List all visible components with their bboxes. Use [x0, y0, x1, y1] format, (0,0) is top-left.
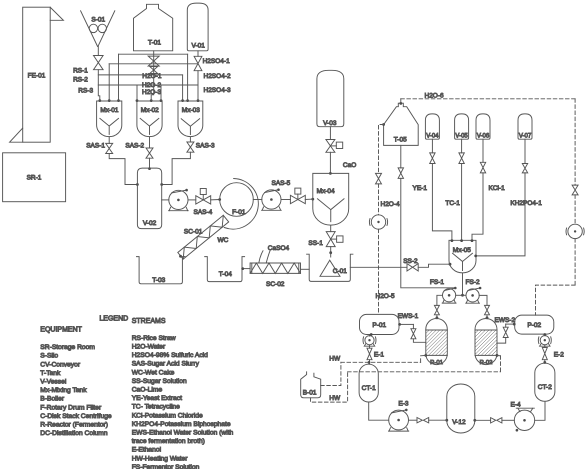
vessel V-03	[317, 70, 344, 126]
valve under V-06	[480, 162, 485, 173]
vessel P-02	[515, 315, 554, 334]
svg-text:LEGEND: LEGEND	[99, 316, 128, 323]
valve SAS-2	[149, 137, 151, 148]
wire V-07 to Mx-05	[476, 173, 525, 256]
wire H2O-6 drop 2	[574, 195, 576, 224]
wire drop to Mx-01 inlet2	[108, 64, 110, 101]
svg-text:B-Boiler: B-Boiler	[40, 396, 65, 403]
tank T-03	[137, 257, 186, 284]
svg-text:CaSO4: CaSO4	[268, 245, 290, 252]
wire V-12 to check valve	[473, 419, 476, 422]
wire drop to Mx-01 inlet3	[118, 54, 120, 100]
svg-text:H2O-6: H2O-6	[425, 92, 445, 99]
svg-text:RS-2: RS-2	[73, 76, 88, 83]
wire EWS-1 to R-01	[413, 339, 425, 343]
svg-text:CT-1: CT-1	[362, 385, 376, 392]
svg-text:WC-Wet Cake: WC-Wet Cake	[132, 369, 175, 376]
silo S-01	[81, 11, 115, 47]
node Mx-03 inlets	[181, 99, 184, 102]
svg-text:V-Vessel: V-Vessel	[40, 379, 67, 386]
svg-text:HW: HW	[329, 356, 341, 363]
wire H2O-4 mid	[378, 184, 380, 215]
wire P-01 bottom	[369, 335, 371, 337]
mixing tank Mx-03	[178, 101, 203, 137]
svg-text:R-01: R-01	[430, 360, 443, 366]
boiler B-01	[301, 372, 321, 398]
svg-text:EWS-2: EWS-2	[495, 317, 516, 324]
svg-text:H2SO4-1: H2SO4-1	[203, 58, 230, 65]
valve pair under T-01	[148, 56, 159, 66]
svg-text:C-Disk Stack Centrifuge: C-Disk Stack Centrifuge	[40, 413, 112, 420]
wire SAS-4 to F-01	[211, 199, 220, 201]
wire V-04 outlet	[431, 139, 433, 153]
valve under E-1	[367, 348, 372, 360]
svg-text:SAS-5: SAS-5	[272, 180, 291, 187]
svg-text:HW-Heating Water: HW-Heating Water	[132, 455, 189, 462]
svg-text:CT-2: CT-2	[538, 384, 552, 391]
valve SS-1 with actuator	[326, 232, 335, 247]
wire SAS-1 to V-02	[109, 154, 137, 185]
svg-text:C-01: C-01	[333, 268, 347, 275]
svg-text:RS-1: RS-1	[73, 68, 88, 75]
wire V-05 to Mx-05	[461, 164, 463, 241]
wire T-05 outlet	[400, 145, 402, 168]
svg-text:SR-1: SR-1	[27, 175, 42, 182]
wire header H2O top	[119, 53, 188, 55]
svg-text:TC- Tetracycline: TC- Tetracycline	[132, 404, 180, 411]
wire V-07 outlet	[524, 139, 526, 163]
svg-text:STREAMS: STREAMS	[132, 318, 166, 325]
svg-text:E-3: E-3	[398, 400, 409, 407]
svg-text:SS-2: SS-2	[403, 258, 418, 265]
svg-text:E-Ethanol: E-Ethanol	[132, 447, 162, 454]
wire RS-1 drop	[98, 70, 100, 101]
svg-text:V-04: V-04	[426, 133, 439, 139]
svg-text:E-4: E-4	[511, 402, 522, 409]
vessel V-01	[187, 3, 208, 51]
svg-text:SAS-Sugar Acid Slurry: SAS-Sugar Acid Slurry	[132, 361, 200, 368]
svg-text:SS-1: SS-1	[308, 240, 323, 247]
wire T-05 to FS-1	[401, 178, 456, 287]
control valve SAS-5	[290, 195, 305, 203]
svg-text:FE-01: FE-01	[28, 73, 46, 80]
tank T-05	[384, 103, 419, 145]
svg-text:P-01: P-01	[372, 322, 386, 329]
svg-text:V-12: V-12	[452, 419, 466, 426]
svg-text:EWS-Ethanol Water Solution (wi: EWS-Ethanol Water Solution (with	[132, 430, 234, 437]
mixing tank Mx-01	[97, 101, 122, 137]
column CT-2	[535, 363, 555, 401]
valve under S-01	[94, 56, 104, 70]
valve under V-01	[197, 51, 199, 57]
wire valve to Mx-04	[329, 152, 331, 173]
wire E-1 to CT-1	[369, 360, 371, 365]
svg-text:KH2PO4-Potassium Biphosphate: KH2PO4-Potassium Biphosphate	[132, 421, 231, 428]
svg-text:YE-Yeast Extract: YE-Yeast Extract	[132, 395, 182, 402]
pump E-3	[389, 410, 409, 430]
svg-text:H2O-5: H2O-5	[376, 293, 396, 300]
svg-text:H2SO4-3: H2SO4-3	[204, 87, 231, 94]
wire H2O-6 to P-02	[574, 239, 576, 286]
svg-text:T-01: T-01	[148, 40, 161, 47]
svg-text:RS-Rice Straw: RS-Rice Straw	[132, 335, 176, 342]
wire Mx-04 outlet	[330, 226, 332, 232]
wire F-01 to pump	[253, 199, 261, 201]
wire H2O-6 drop	[574, 99, 576, 185]
wire drop to Mx-03 inlet2	[187, 54, 189, 100]
wire FS-1 discharge	[437, 295, 443, 305]
reactor R-02	[475, 319, 497, 365]
svg-text:H2O-4: H2O-4	[381, 201, 401, 208]
svg-text:T-05: T-05	[394, 137, 407, 144]
svg-text:FS-1: FS-1	[430, 279, 444, 286]
valve on H2O-4	[376, 173, 382, 184]
wire R-02 jacket connection	[496, 354, 499, 357]
wire H2O-4 to P-01	[378, 229, 380, 314]
mixing tank Mx-05	[449, 240, 476, 273]
svg-text:EQUIPMENT: EQUIPMENT	[40, 327, 82, 334]
svg-text:V-07: V-07	[519, 133, 532, 139]
valve SAS-3	[189, 137, 191, 142]
node V-02 left	[136, 183, 139, 186]
wire drop to Mx-02 inlet3	[160, 85, 162, 100]
svg-text:B-01: B-01	[303, 390, 317, 397]
wire SAS-5 to Mx-04	[305, 198, 313, 200]
wire H2O-4 branch	[379, 125, 384, 174]
wire Mx-05 outlet	[462, 273, 464, 295]
valve SAS-1	[108, 137, 110, 143]
pump on H2O-4	[371, 215, 385, 229]
wire header H2SO4-1	[109, 63, 198, 65]
svg-text:TC-1: TC-1	[445, 200, 460, 207]
mixing tank Mx-02	[137, 101, 162, 137]
wire into R-01	[436, 315, 438, 319]
wire SS-1 to C-01	[330, 247, 332, 253]
vessel P-01	[360, 314, 400, 334]
svg-text:V-02: V-02	[143, 220, 157, 227]
svg-text:FS-Fermentor Solution: FS-Fermentor Solution	[132, 464, 200, 469]
wire E-2 to valve	[544, 345, 546, 348]
svg-text:S-01: S-01	[91, 16, 105, 23]
svg-text:H2O-3: H2O-3	[142, 89, 162, 96]
svg-text:S-Silo: S-Silo	[40, 353, 58, 360]
screw conveyor SC-02	[250, 263, 300, 273]
pump E-1	[365, 336, 374, 345]
wire E-3 to check valve	[409, 419, 418, 421]
pump E-4	[514, 410, 534, 430]
valve EWS-2	[503, 327, 508, 337]
wire pump to SAS-4 valve	[188, 199, 196, 201]
svg-text:SS-Sugar Solution: SS-Sugar Solution	[132, 378, 187, 385]
screw conveyor SC-01	[178, 215, 229, 259]
wire E-1 to valve	[369, 345, 371, 348]
svg-text:SC-01: SC-01	[184, 229, 203, 236]
svg-text:H2SO4-98% Sulfuric Acid: H2SO4-98% Sulfuric Acid	[132, 352, 208, 359]
vessel V-12	[447, 384, 475, 433]
svg-text:Mx-04: Mx-04	[317, 188, 335, 195]
check valve after E-3	[417, 418, 429, 423]
check valve to R-01	[434, 305, 439, 314]
svg-text:Mx-05: Mx-05	[453, 247, 471, 254]
wire CT-1 to E-3	[369, 402, 389, 420]
wire E-4 to CT-2	[535, 401, 545, 420]
svg-text:T-Tank: T-Tank	[40, 370, 61, 377]
wire V-02 to pump	[162, 199, 169, 201]
svg-text:H2O-Water: H2O-Water	[132, 344, 166, 351]
svg-text:CaO-Lime: CaO-Lime	[132, 387, 163, 394]
pump on H2O-6	[568, 224, 582, 238]
wire T-01 down	[151, 51, 154, 101]
storage room SR-1	[3, 153, 66, 202]
conveyor FE-01	[23, 7, 51, 142]
node Mx-02 inlets	[136, 99, 139, 102]
wire to FS pumps	[456, 294, 466, 296]
valve under V-07	[522, 164, 527, 173]
svg-text:YE-1: YE-1	[413, 185, 428, 192]
svg-text:HW: HW	[329, 395, 341, 402]
svg-text:KCl-Potassium Chloride: KCl-Potassium Chloride	[132, 412, 203, 419]
wire S-01 outlet	[97, 47, 99, 56]
svg-text:CV-Conveyor: CV-Conveyor	[40, 361, 81, 368]
check valve before E-4	[491, 418, 502, 423]
vessel V-07	[518, 114, 532, 139]
wire V-01 down	[197, 71, 199, 101]
pump after F-01	[262, 190, 281, 209]
svg-text:V-01: V-01	[192, 43, 206, 50]
valve under T-05	[398, 168, 403, 179]
check valve to R-02	[485, 305, 490, 314]
svg-text:R-Reactor (Fermentor): R-Reactor (Fermentor)	[40, 422, 108, 429]
svg-text:KCl-1: KCl-1	[489, 185, 506, 192]
centrifuge C-01 cone	[320, 260, 340, 276]
wire E-2 to CT-2	[544, 360, 546, 364]
node Mx-05 inlets	[451, 239, 454, 242]
svg-text:H2O-1: H2O-1	[142, 73, 162, 80]
centrifuge C-01 tank	[307, 254, 353, 281]
wire H2O-6 header	[401, 98, 575, 100]
svg-text:SR-Storage Room: SR-Storage Room	[40, 344, 95, 351]
wire HW from B-01	[321, 362, 341, 385]
svg-text:T-04: T-04	[219, 271, 232, 278]
wire drop to Mx-02 inlet1	[136, 85, 138, 100]
svg-text:SAS-1: SAS-1	[86, 143, 105, 150]
wire R-01 jacket connection	[424, 354, 427, 357]
svg-text:EWS-1: EWS-1	[398, 313, 419, 320]
svg-text:Mx-Mixing Tank: Mx-Mixing Tank	[40, 387, 87, 394]
svg-text:Mx-01: Mx-01	[100, 107, 118, 114]
pump FS-2	[466, 289, 479, 302]
svg-text:H2SO4-2: H2SO4-2	[204, 73, 231, 80]
svg-text:Mx-02: Mx-02	[141, 107, 159, 114]
node T-05 water takeoff	[382, 123, 385, 126]
wire HW header top	[341, 361, 421, 363]
control valve SAS-4	[196, 196, 211, 204]
pump E-2	[540, 336, 549, 345]
rotary drum filter F-01	[220, 183, 254, 217]
svg-text:DC-Distillation Column: DC-Distillation Column	[40, 430, 108, 437]
vessel V-05	[455, 114, 469, 139]
svg-text:V-03: V-03	[323, 120, 337, 127]
wire T-04 to SC-02	[242, 268, 250, 270]
svg-text:WC: WC	[218, 237, 229, 244]
valve on H2O-6	[572, 185, 578, 195]
wire CaSO4 feed lines	[259, 251, 270, 263]
svg-text:P-02: P-02	[527, 322, 541, 329]
wire C-01 to SS-2 valve	[350, 266, 407, 268]
node V-02 right	[160, 183, 163, 186]
valve under E-2	[542, 348, 547, 360]
wire V-06 to Mx-05	[472, 173, 483, 240]
wire HW header lower	[348, 371, 501, 373]
vessel V-04	[425, 114, 439, 139]
svg-text:KH2PO4-1: KH2PO4-1	[510, 200, 542, 207]
wire V-06 outlet	[482, 139, 484, 162]
tank T-01	[134, 4, 173, 51]
wire V-05 outlet	[461, 139, 463, 153]
valve EWS-1	[411, 329, 416, 339]
wire pump to SAS-5 valve	[281, 199, 290, 201]
wire FS-2 discharge	[479, 295, 487, 305]
svg-text:V-06: V-06	[477, 133, 490, 139]
wire P-02 bottom	[544, 334, 546, 336]
svg-text:FS-2: FS-2	[466, 279, 480, 286]
vessel V-02	[137, 168, 161, 229]
svg-text:SC-02: SC-02	[266, 281, 285, 288]
svg-text:RS-3: RS-3	[78, 88, 93, 95]
valve under V-05	[459, 153, 464, 164]
svg-text:F-01: F-01	[232, 209, 246, 216]
svg-text:T-03: T-03	[152, 277, 165, 284]
wire SAS-2 to V-02	[149, 158, 151, 168]
svg-text:E-1: E-1	[374, 351, 385, 358]
svg-text:SAS-2: SAS-2	[125, 143, 144, 150]
wire EWS-2 to R-02	[497, 338, 506, 344]
vessel V-06	[476, 114, 490, 139]
svg-text:V-05: V-05	[455, 133, 468, 139]
wire drop to Mx-03 inlet1	[182, 75, 184, 100]
valve SS-2	[407, 264, 418, 271]
wire header lower	[98, 84, 198, 86]
column CT-1	[359, 364, 378, 402]
svg-text:Mx-03: Mx-03	[182, 107, 200, 114]
pump FS-1	[443, 289, 456, 302]
node Mx-01 inlets	[98, 99, 101, 102]
wire P-01 to EWS-1 valve	[399, 323, 413, 325]
tank T-04	[205, 257, 245, 282]
svg-text:E-2: E-2	[554, 351, 565, 358]
wire to V-12	[429, 419, 447, 421]
wire header RS to Mx-03	[98, 74, 182, 76]
svg-text:SAS-3: SAS-3	[196, 143, 215, 150]
pump after V-02	[169, 190, 188, 209]
valve under V-04	[430, 153, 435, 164]
svg-text:H2O-2: H2O-2	[142, 82, 162, 89]
wire SC-02 to C-01	[301, 268, 310, 270]
svg-text:SAS-4: SAS-4	[194, 209, 213, 216]
wire SS-2 to Mx-05	[418, 264, 450, 267]
mixing tank Mx-04	[313, 173, 349, 225]
wire V-04 to Mx-05	[432, 164, 452, 241]
valve under V-03 with actuator	[326, 140, 335, 153]
svg-text:CaO: CaO	[343, 162, 356, 169]
node V-02 top	[148, 167, 151, 170]
svg-text:R-02: R-02	[480, 360, 493, 366]
wire V-03 outlet	[329, 127, 331, 140]
wire HW from B-01 bottom	[311, 372, 348, 402]
reactor R-01	[426, 319, 448, 365]
wire SAS-3 to V-02	[162, 152, 191, 184]
wire P-02 to EWS-2 valve	[506, 323, 515, 325]
svg-text:F-Rotary Drum Filter: F-Rotary Drum Filter	[40, 404, 102, 411]
wire into R-02	[486, 315, 488, 319]
svg-text:trace fermentation broth): trace fermentation broth)	[132, 438, 205, 445]
wire to E-4	[502, 419, 514, 421]
